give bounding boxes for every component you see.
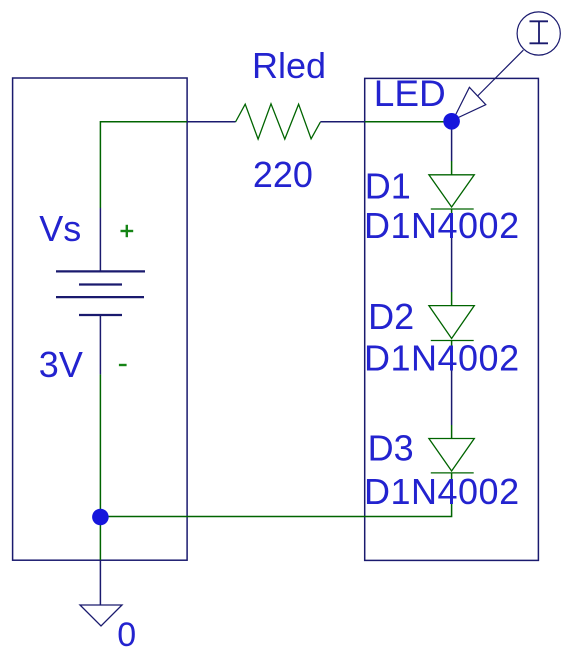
svg-text:D3: D3 <box>368 427 414 468</box>
svg-text:3V: 3V <box>39 344 83 385</box>
svg-text:Rled: Rled <box>252 45 326 86</box>
svg-text:D1N4002: D1N4002 <box>364 338 520 379</box>
svg-text:LED: LED <box>374 73 446 114</box>
svg-text:D1N4002: D1N4002 <box>364 205 520 246</box>
svg-text:0: 0 <box>117 616 136 654</box>
svg-text:Vs: Vs <box>39 208 81 249</box>
svg-text:220: 220 <box>253 154 313 195</box>
svg-text:D1N4002: D1N4002 <box>364 471 520 512</box>
svg-text:D1: D1 <box>365 166 411 207</box>
svg-text:D2: D2 <box>368 296 414 337</box>
